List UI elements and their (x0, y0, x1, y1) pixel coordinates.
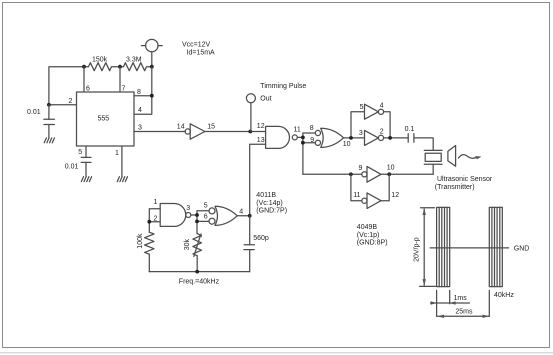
svg-text:12: 12 (391, 192, 399, 199)
inverter U4b pins 3 -> 2 (365, 130, 384, 145)
node rail (195, 270, 199, 274)
svg-text:4011B: 4011B (256, 192, 276, 199)
node 2-4 (388, 136, 392, 140)
wire 10 to inverters (344, 137, 365, 139)
svg-text:5: 5 (78, 149, 82, 156)
svg-text:2: 2 (154, 216, 158, 223)
wire node vertical to gate inputs (302, 133, 304, 174)
node Out junction (248, 130, 252, 134)
capacitor C1 0.01 (44, 105, 55, 138)
ground G3 (117, 177, 127, 182)
svg-text:11: 11 (353, 192, 360, 199)
terminal Out (246, 94, 255, 132)
svg-text:6: 6 (86, 86, 90, 93)
svg-text:GND: GND (514, 245, 530, 252)
node 9in (349, 172, 353, 176)
svg-text:(GND:8P): (GND:8P) (357, 240, 388, 247)
svg-text:(Transmitter): (Transmitter) (435, 184, 475, 191)
waveform GND line (430, 247, 508, 249)
wire pin13 (250, 144, 266, 216)
transducer X1 ultrasonic (424, 150, 442, 174)
node B (118, 65, 122, 69)
node pin8 (150, 94, 154, 98)
wire pin6 (83, 67, 85, 92)
svg-text:12: 12 (257, 123, 265, 130)
svg-text:1: 1 (115, 150, 119, 157)
svg-text:5: 5 (360, 104, 364, 111)
svg-text:20V/p-p: 20V/p-p (414, 237, 421, 262)
node 10-12 (387, 172, 391, 176)
svg-text:3: 3 (186, 205, 190, 212)
svg-text:4049B: 4049B (357, 224, 378, 231)
svg-text:9: 9 (359, 165, 363, 172)
svg-text:10: 10 (387, 165, 395, 172)
bottom rail (149, 271, 249, 273)
wire pin3 to inverter (134, 131, 185, 133)
capacitor C4 560p (244, 216, 255, 272)
wire into 11 (351, 174, 362, 200)
svg-text:0.01: 0.01 (27, 109, 41, 116)
speaker cone (448, 146, 456, 167)
node 1-2 (147, 220, 151, 224)
wire 12 up to node (381, 174, 389, 200)
wire 4 down to node (384, 112, 391, 138)
inverter U4d pins 11 -> 12 (362, 193, 381, 209)
wire pin1 (121, 146, 123, 177)
wire right vertical to pin8/pin4 (134, 67, 152, 115)
resistor R2 3.3M (120, 63, 152, 71)
waveform burst 1 (437, 207, 450, 286)
svg-text:2: 2 (69, 98, 73, 105)
ground G2 (81, 177, 91, 182)
capacitor C2 0.01 on pin5 (81, 146, 91, 177)
waveform 1ms dimension (431, 290, 470, 316)
svg-text:4: 4 (138, 107, 142, 114)
wire cap to transducer (414, 138, 433, 151)
svg-text:Ultrasonic Sensor: Ultrasonic Sensor (437, 176, 493, 183)
svg-text:560p: 560p (253, 235, 269, 242)
svg-text:3: 3 (138, 125, 142, 132)
capacitor C3 0.1 (408, 134, 414, 143)
wire top-left rail (49, 67, 84, 105)
node 3b (195, 220, 199, 224)
svg-text:3.3M: 3.3M (126, 57, 142, 64)
wire 11 to node (297, 136, 303, 138)
node 11b (301, 141, 305, 145)
svg-text:4: 4 (239, 209, 243, 216)
svg-text:4: 4 (380, 102, 384, 109)
svg-text:13: 13 (257, 137, 265, 144)
inverter U2a pins 14-15 (185, 124, 205, 139)
wire 15 to NAND pin12 (205, 131, 266, 133)
svg-text:1: 1 (154, 199, 158, 206)
wire 4 to node (237, 215, 250, 217)
svg-text:30k: 30k (184, 239, 191, 251)
svg-text:0.1: 0.1 (405, 126, 415, 133)
svg-text:2: 2 (380, 129, 384, 136)
svg-text:Timming Pulse: Timming Pulse (260, 83, 306, 90)
svg-text:1ms: 1ms (454, 295, 468, 302)
wire 2 to cap (384, 137, 409, 139)
wire power to top rail (151, 52, 153, 67)
svg-text:8: 8 (137, 89, 141, 96)
NAND U3c pins 1,2 -> 3 (160, 204, 191, 227)
svg-text:25ms: 25ms (455, 308, 473, 315)
svg-text:100k: 100k (137, 233, 144, 249)
svg-text:5: 5 (204, 202, 208, 209)
node 4 (248, 214, 252, 218)
waveform burst 2 (489, 207, 502, 286)
svg-text:3: 3 (359, 130, 363, 137)
variable resistor VR1 30k (193, 233, 202, 257)
power source B1 (141, 39, 162, 51)
wire pin8 (134, 95, 152, 97)
svg-text:14: 14 (177, 124, 185, 131)
svg-text:7: 7 (122, 86, 126, 93)
waveform dimension 20V/p-p (420, 208, 436, 287)
ground G1 (44, 138, 54, 143)
svg-text:150k: 150k (92, 57, 108, 64)
resistor R1 150k (84, 63, 120, 71)
node 11a (301, 136, 305, 140)
svg-text:Out: Out (260, 95, 271, 102)
svg-text:(GND:7P): (GND:7P) (256, 207, 287, 214)
wire 3 to node (191, 214, 197, 216)
svg-text:40kHz: 40kHz (494, 292, 514, 299)
wire pins 1,2 tie (149, 209, 160, 232)
svg-text:Freq.=40kHz: Freq.=40kHz (179, 278, 220, 285)
svg-text:0.01: 0.01 (65, 163, 79, 170)
svg-text:8: 8 (310, 125, 314, 132)
wire pin7 (119, 67, 121, 92)
resistor R3 100k (145, 232, 154, 254)
node pin2 (47, 103, 51, 107)
NAND U3d pins 5,6 -> 4 (negative-OR form) (209, 206, 237, 225)
svg-text:9: 9 (310, 137, 314, 144)
svg-text:(Vc:1p): (Vc:1p) (357, 232, 380, 239)
wire node vertical (196, 211, 198, 234)
sound wave arrow (459, 155, 482, 160)
svg-text:11: 11 (294, 126, 301, 133)
inverter U4a pins 5 -> 4 (365, 104, 384, 119)
node A (82, 65, 86, 69)
inverter U4c pins 9 -> 10 (362, 166, 381, 182)
svg-text:555: 555 (98, 116, 110, 123)
node 3a (195, 213, 199, 217)
svg-text:10: 10 (343, 141, 351, 148)
waveform 25ms dimension (437, 290, 489, 318)
svg-text:15: 15 (207, 123, 215, 130)
NAND U3b pins 8,9 -> 10 (negative-OR form) (315, 128, 343, 147)
IC U1 555 (77, 92, 135, 146)
svg-text:(Vc:14p): (Vc:14p) (256, 200, 282, 207)
svg-text:Id=15mA: Id=15mA (187, 50, 216, 57)
lower rail wire from node 11b to transducer (303, 173, 362, 175)
node 10 (349, 136, 353, 140)
svg-text:Vcc=12V: Vcc=12V (182, 42, 211, 49)
NAND U3a pins 12,13 -> 11 (266, 126, 298, 148)
svg-text:6: 6 (204, 214, 208, 221)
node C (150, 65, 154, 69)
